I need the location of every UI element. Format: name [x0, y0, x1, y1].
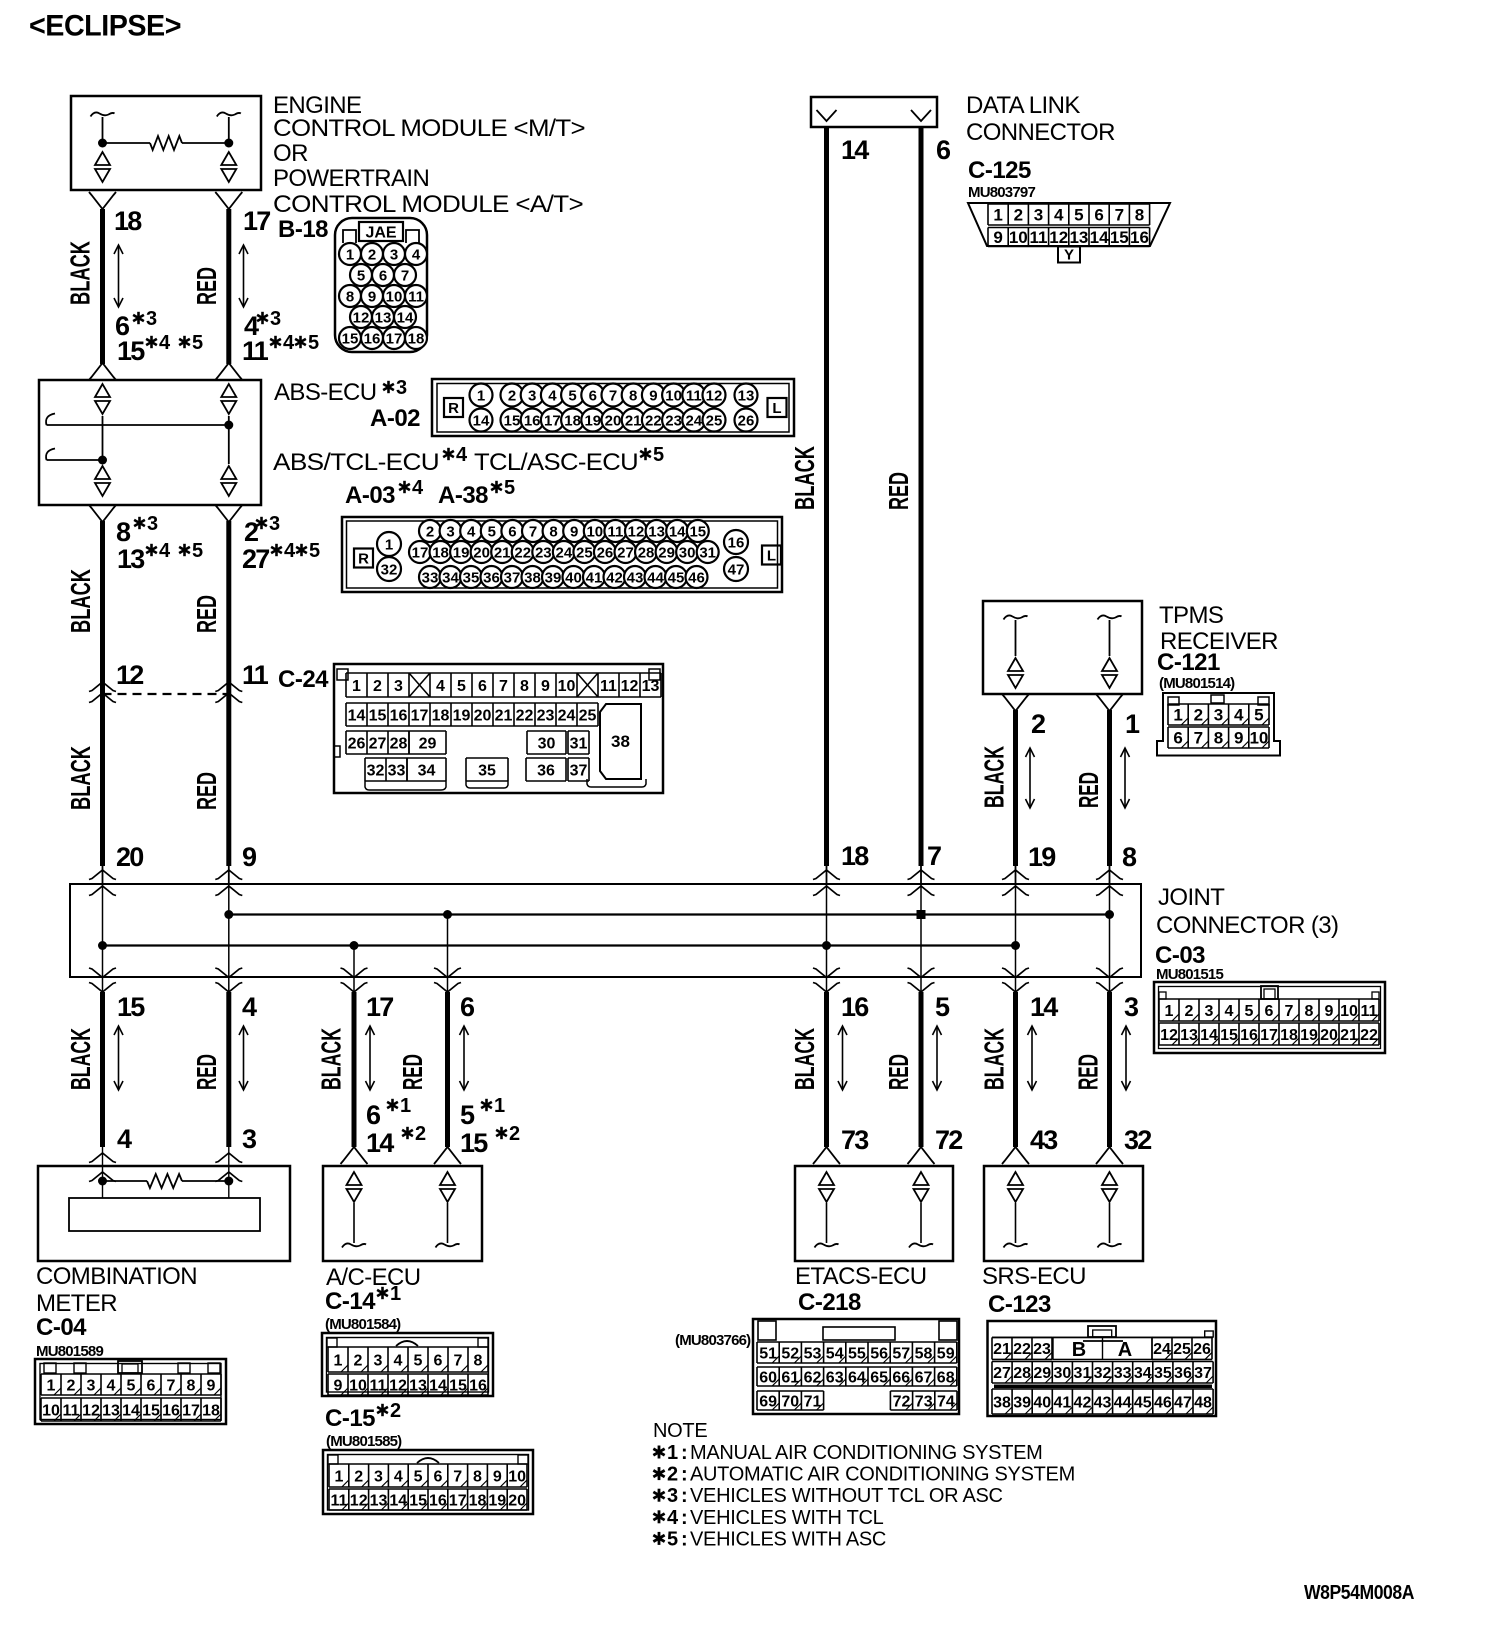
svg-text:C-125: C-125 [968, 157, 1031, 184]
svg-text:3: 3 [1205, 1003, 1214, 1020]
svg-text:28: 28 [638, 544, 655, 561]
svg-text:26: 26 [597, 544, 614, 561]
svg-text:12: 12 [350, 1492, 368, 1509]
svg-text:32: 32 [1124, 1125, 1151, 1155]
svg-text:22: 22 [645, 412, 662, 429]
arrow wire 1 right [239, 245, 248, 307]
svg-text:55: 55 [848, 1345, 866, 1362]
joint internal wire D [447, 915, 449, 993]
svg-text:2: 2 [1014, 206, 1023, 225]
svg-text:16: 16 [728, 534, 745, 551]
svg-text:14: 14 [389, 1492, 407, 1509]
svg-text:5: 5 [568, 387, 576, 404]
svg-text:TPMS: TPMS [1159, 602, 1223, 629]
svg-text:42: 42 [606, 569, 623, 586]
chevrons joint bottom [341, 968, 368, 978]
svg-text:11: 11 [1361, 1003, 1378, 1020]
wire TPMS CAN-H (RED) [1096, 694, 1123, 711]
svg-text:2: 2 [354, 1468, 363, 1485]
svg-text:(MU801514): (MU801514) [1159, 675, 1235, 692]
svg-text:5: 5 [414, 1468, 423, 1485]
svg-text:1: 1 [47, 1377, 56, 1394]
node meter left [98, 1177, 107, 1186]
svg-text:4: 4 [159, 540, 171, 562]
joint connector C-03 box [70, 884, 1141, 977]
svg-text:18: 18 [432, 544, 449, 561]
svg-text:16: 16 [1130, 228, 1149, 247]
svg-text:66: 66 [892, 1369, 910, 1386]
svg-text:6: 6 [433, 1468, 442, 1485]
svg-text:11: 11 [600, 678, 617, 695]
wire CAN-H ECM to ABS (RED) [215, 192, 242, 209]
svg-text:9: 9 [242, 842, 257, 872]
svg-text:4: 4 [117, 1124, 132, 1154]
svg-text:6: 6 [1173, 729, 1182, 748]
svg-text:C-15: C-15 [325, 1405, 375, 1432]
svg-text:1: 1 [334, 1352, 343, 1369]
svg-text:4: 4 [284, 540, 296, 562]
TPMS hook left [1004, 616, 1028, 620]
joint bus lower [103, 944, 1016, 946]
svg-text:C-121: C-121 [1157, 649, 1220, 676]
svg-text:48: 48 [1194, 1394, 1212, 1411]
svg-text:7: 7 [499, 678, 508, 695]
svg-text:22: 22 [1013, 1341, 1031, 1358]
svg-text:15: 15 [117, 992, 145, 1022]
svg-text:31: 31 [570, 735, 588, 752]
svg-text:R: R [358, 551, 369, 568]
node bus lower C [350, 941, 359, 950]
svg-text:32: 32 [367, 762, 385, 779]
svg-text:13: 13 [409, 1377, 427, 1394]
svg-text:1: 1 [494, 1095, 505, 1117]
meter internal wire left [102, 1147, 104, 1181]
svg-text:18: 18 [1280, 1027, 1298, 1044]
svg-text:21: 21 [495, 707, 513, 724]
svg-text:3: 3 [374, 1352, 383, 1369]
svg-text:20: 20 [1320, 1027, 1338, 1044]
svg-text:14: 14 [1090, 228, 1109, 247]
wire joint to unit col8 [1107, 992, 1112, 1147]
svg-text:6: 6 [379, 267, 387, 284]
svg-text:8: 8 [474, 1352, 483, 1369]
SRS internal wire left [1015, 1203, 1017, 1243]
svg-text:12: 12 [389, 1377, 407, 1394]
svg-text:12: 12 [82, 1402, 100, 1419]
svg-text:7: 7 [1285, 1003, 1294, 1020]
svg-text:(MU803766): (MU803766) [675, 1332, 751, 1349]
svg-text:44: 44 [647, 569, 664, 586]
chevrons joint top [1096, 870, 1123, 880]
svg-text:1: 1 [334, 1468, 343, 1485]
svg-text:28: 28 [390, 735, 408, 752]
TPMS terminal pair left [1008, 658, 1023, 688]
svg-text:4: 4 [394, 1352, 403, 1369]
svg-text:16: 16 [524, 412, 541, 429]
svg-text:37: 37 [1194, 1365, 1212, 1382]
svg-text:8: 8 [1214, 729, 1223, 748]
chevrons joint bottom [1096, 968, 1123, 978]
svg-text:11: 11 [242, 336, 269, 366]
svg-text:21: 21 [1340, 1027, 1358, 1044]
svg-text:2: 2 [426, 523, 434, 540]
svg-text:14: 14 [122, 1402, 140, 1419]
svg-text:8: 8 [1122, 842, 1137, 872]
wire ABS internal left lower [102, 460, 104, 464]
svg-text:2: 2 [509, 1123, 520, 1145]
svg-text:25: 25 [576, 544, 593, 561]
chevrons joint bottom [908, 968, 935, 978]
node bus upper D [443, 910, 452, 919]
svg-text:10: 10 [1249, 729, 1268, 748]
svg-text:51: 51 [759, 1345, 777, 1362]
ABS terminal pair top left [95, 384, 110, 414]
svg-text:8: 8 [629, 387, 637, 404]
svg-text:DATA LINK: DATA LINK [966, 92, 1080, 119]
svg-text:5: 5 [414, 1352, 423, 1369]
svg-text:MU801515: MU801515 [1156, 966, 1223, 983]
svg-text:C-14: C-14 [325, 1288, 376, 1315]
svg-text:10: 10 [1009, 228, 1028, 247]
arrow bottom wire [366, 1026, 375, 1090]
svg-text:RED: RED [883, 1054, 914, 1090]
svg-text:4: 4 [394, 1468, 403, 1485]
svg-text:32: 32 [1094, 1365, 1112, 1382]
svg-text:8: 8 [187, 1377, 196, 1394]
svg-text:14: 14 [348, 707, 366, 724]
svg-text:45: 45 [1134, 1394, 1152, 1411]
svg-text:27: 27 [242, 544, 269, 574]
node ECM right junction [224, 139, 233, 148]
wire joint to unit col7 [1013, 992, 1018, 1147]
svg-text:6: 6 [1094, 206, 1103, 225]
svg-text:2: 2 [508, 387, 516, 404]
ABS terminal pair bottom right [221, 466, 236, 496]
TPMS terminal pair right [1102, 658, 1117, 688]
svg-text:5: 5 [309, 540, 320, 562]
svg-text:21: 21 [494, 544, 511, 561]
node bus lower E [822, 941, 831, 950]
svg-text:3: 3 [269, 513, 280, 535]
svg-text:5: 5 [488, 523, 496, 540]
SRS terminal pair right [1102, 1172, 1117, 1202]
svg-text:4: 4 [667, 1507, 679, 1529]
svg-text:<ECLIPSE>: <ECLIPSE> [29, 10, 181, 43]
svg-text:RED: RED [191, 772, 222, 810]
AC terminal pair left [347, 1172, 362, 1202]
svg-text:7: 7 [1115, 206, 1124, 225]
svg-text:15: 15 [117, 336, 145, 366]
svg-text:37: 37 [570, 762, 588, 779]
meter internal wire right [228, 1147, 230, 1181]
svg-text:72: 72 [935, 1125, 962, 1155]
svg-text:8: 8 [1135, 206, 1144, 225]
svg-text:L: L [772, 400, 781, 417]
svg-text:17: 17 [386, 330, 403, 347]
svg-text:36: 36 [1174, 1365, 1192, 1382]
connector C-24 crossing right [215, 682, 242, 692]
svg-text:C-24: C-24 [278, 666, 329, 693]
connector C-14 face [322, 1333, 493, 1396]
svg-text:3: 3 [1214, 706, 1223, 725]
connector C-15 face [323, 1450, 533, 1514]
chevrons joint bottom [89, 968, 116, 978]
svg-text:RED: RED [191, 267, 222, 305]
svg-text:RED: RED [191, 595, 222, 633]
svg-text:16: 16 [469, 1377, 487, 1394]
connector C-03 face [1154, 982, 1385, 1053]
svg-text:A-38: A-38 [438, 482, 488, 509]
svg-text:26: 26 [738, 412, 755, 429]
svg-text:73: 73 [841, 1125, 869, 1155]
svg-text:18: 18 [432, 707, 450, 724]
arrow bottom wire [838, 1026, 847, 1090]
svg-text:POWERTRAIN: POWERTRAIN [273, 165, 429, 192]
note *2 [653, 1467, 664, 1480]
svg-text:JAE: JAE [365, 225, 396, 242]
svg-text:68: 68 [937, 1369, 955, 1386]
svg-text:19: 19 [1028, 842, 1056, 872]
svg-text:3: 3 [146, 308, 157, 330]
note *1 [653, 1446, 664, 1459]
svg-text:16: 16 [429, 1492, 447, 1509]
svg-text:9: 9 [1325, 1003, 1334, 1020]
svg-text:58: 58 [915, 1345, 933, 1362]
svg-text:9: 9 [207, 1377, 216, 1394]
svg-text:OR: OR [273, 140, 308, 167]
svg-text:7: 7 [167, 1377, 176, 1394]
node bus upper H [1105, 910, 1114, 919]
svg-text:3: 3 [374, 1468, 383, 1485]
svg-text:16: 16 [364, 330, 381, 347]
svg-text:13: 13 [648, 523, 665, 540]
svg-text:38: 38 [993, 1394, 1011, 1411]
ABS terminal pair top right [221, 384, 236, 414]
svg-text:NOTE: NOTE [653, 1420, 707, 1442]
svg-text:6: 6 [147, 1377, 156, 1394]
svg-text:35: 35 [463, 569, 480, 586]
svg-text:15: 15 [460, 1128, 488, 1158]
svg-text:9: 9 [649, 387, 657, 404]
svg-text:3: 3 [1124, 992, 1139, 1022]
svg-text:5: 5 [667, 1528, 678, 1550]
svg-text:1: 1 [1173, 706, 1182, 725]
svg-text:12: 12 [628, 523, 645, 540]
svg-text:30: 30 [1053, 1365, 1071, 1382]
svg-text:17: 17 [366, 992, 393, 1022]
connector B-18 face [335, 218, 427, 352]
svg-text:40: 40 [565, 569, 582, 586]
svg-text:8: 8 [1305, 1003, 1314, 1020]
svg-text:16: 16 [1240, 1027, 1258, 1044]
svg-text:BLACK: BLACK [979, 746, 1010, 808]
joint internal wire F [920, 884, 922, 992]
svg-text:TCL/ASC-ECU: TCL/ASC-ECU [474, 449, 638, 476]
svg-text:43: 43 [1030, 1125, 1058, 1155]
svg-text:15: 15 [369, 707, 387, 724]
svg-text:18: 18 [114, 206, 142, 236]
resistor R1 (CAN terminating) [103, 142, 151, 144]
svg-text:6: 6 [434, 1352, 443, 1369]
svg-text:A-03: A-03 [345, 482, 395, 509]
ECM terminal hook left [91, 113, 115, 117]
svg-text:12: 12 [621, 678, 639, 695]
SRS terminal pair left [1008, 1172, 1023, 1202]
svg-text:20: 20 [474, 707, 492, 724]
svg-text:5: 5 [1254, 706, 1263, 725]
svg-text:23: 23 [665, 412, 682, 429]
svg-text:17: 17 [411, 707, 429, 724]
svg-text:15: 15 [409, 1492, 427, 1509]
node ABS upper junction [224, 421, 233, 430]
svg-text:2: 2 [415, 1123, 426, 1145]
svg-text:3: 3 [147, 513, 158, 535]
svg-text:12: 12 [1160, 1027, 1178, 1044]
wire joint to unit col5 [824, 992, 829, 1147]
svg-text:4: 4 [107, 1377, 116, 1394]
svg-text:7: 7 [1194, 729, 1203, 748]
svg-text:ABS-ECU: ABS-ECU [274, 379, 377, 406]
svg-text:17: 17 [449, 1492, 467, 1509]
svg-text:24: 24 [1153, 1341, 1171, 1358]
svg-text:10: 10 [42, 1402, 60, 1419]
svg-text:CONNECTOR (3): CONNECTOR (3) [1156, 912, 1338, 939]
svg-text:5: 5 [935, 992, 950, 1022]
svg-text:30: 30 [679, 544, 696, 561]
svg-text:15: 15 [1110, 228, 1129, 247]
wire dashed C-24 link [103, 693, 229, 695]
ABS internal bus upper [46, 414, 55, 426]
svg-text:7: 7 [609, 387, 617, 404]
wire ABS internal right lower [228, 425, 230, 464]
svg-text:26: 26 [1193, 1341, 1211, 1358]
svg-text:RED: RED [397, 1054, 428, 1090]
svg-text:10: 10 [508, 1468, 526, 1485]
arrow bottom wire [460, 1026, 469, 1090]
svg-text:ETACS-ECU: ETACS-ECU [795, 1263, 927, 1290]
svg-text:14: 14 [473, 412, 490, 429]
svg-text:12: 12 [116, 660, 143, 690]
svg-text:10: 10 [1340, 1003, 1358, 1020]
svg-text:RED: RED [191, 1054, 222, 1090]
svg-text:17: 17 [1260, 1027, 1278, 1044]
svg-text:6: 6 [478, 678, 487, 695]
svg-text:4: 4 [548, 387, 557, 404]
chevrons joint bottom [1002, 968, 1029, 978]
node bus lower G [1011, 941, 1020, 950]
svg-text:BLACK: BLACK [65, 1028, 96, 1090]
svg-text:3: 3 [1034, 206, 1043, 225]
node bus upper B [224, 910, 233, 919]
svg-text:B-18: B-18 [278, 216, 328, 243]
svg-text:9: 9 [541, 678, 550, 695]
svg-text:1: 1 [667, 1442, 678, 1464]
joint internal wire B [228, 884, 230, 992]
svg-text:11: 11 [408, 288, 424, 305]
svg-text:5: 5 [308, 332, 319, 354]
svg-text:2: 2 [373, 678, 382, 695]
svg-text:29: 29 [1033, 1365, 1051, 1382]
svg-text:6: 6 [589, 387, 597, 404]
svg-text:1: 1 [1165, 1003, 1174, 1020]
svg-text:15: 15 [342, 330, 359, 347]
svg-text:64: 64 [848, 1369, 866, 1386]
svg-text:22: 22 [516, 707, 534, 724]
svg-text:29: 29 [419, 735, 437, 752]
svg-text:R: R [448, 400, 459, 417]
svg-text:CONNECTOR: CONNECTOR [966, 119, 1115, 146]
svg-text:10: 10 [586, 523, 603, 540]
svg-text:RED: RED [1073, 772, 1104, 808]
svg-text:C-218: C-218 [798, 1289, 861, 1316]
connector C-121 face [1157, 693, 1280, 756]
node bus upper F square [917, 910, 926, 919]
svg-text:11: 11 [370, 1377, 387, 1394]
svg-text:3: 3 [87, 1377, 96, 1394]
joint internal wire A [102, 884, 104, 992]
svg-text:59: 59 [937, 1345, 955, 1362]
svg-text:CONTROL MODULE <A/T>: CONTROL MODULE <A/T> [273, 191, 583, 218]
connector C-218 face [753, 1319, 959, 1414]
arrow bottom wire [1028, 1026, 1037, 1090]
wire ABS internal right [228, 416, 230, 425]
meter display rect [102, 1181, 104, 1198]
svg-text:1: 1 [346, 246, 354, 263]
svg-text:COMBINATION: COMBINATION [36, 1263, 197, 1290]
svg-text:3: 3 [528, 387, 536, 404]
svg-text:19: 19 [488, 1492, 506, 1509]
node bus lower A [98, 941, 107, 950]
svg-text:36: 36 [537, 762, 555, 779]
engine/powertrain control module box [71, 96, 261, 190]
svg-text:2: 2 [1194, 706, 1203, 725]
svg-text:18: 18 [469, 1492, 487, 1509]
svg-text:53: 53 [804, 1345, 822, 1362]
svg-text:3: 3 [446, 523, 454, 540]
svg-text:13: 13 [642, 678, 660, 695]
svg-text:52: 52 [781, 1345, 799, 1362]
svg-text:9: 9 [368, 288, 376, 305]
svg-text:22: 22 [1360, 1027, 1378, 1044]
svg-text:5: 5 [1245, 1003, 1254, 1020]
svg-text:4: 4 [456, 444, 468, 466]
svg-text:24: 24 [558, 707, 576, 724]
svg-text:36: 36 [483, 569, 500, 586]
svg-text:39: 39 [1013, 1394, 1031, 1411]
combination meter box [38, 1166, 290, 1261]
svg-text:61: 61 [781, 1369, 799, 1386]
node ABS lower junction [98, 456, 107, 465]
svg-text:BLACK: BLACK [789, 1028, 820, 1090]
svg-text:11: 11 [242, 660, 269, 690]
ECM terminal pair right [221, 152, 236, 182]
svg-text:42: 42 [1074, 1394, 1092, 1411]
svg-text:34: 34 [1134, 1365, 1152, 1382]
svg-text:19: 19 [453, 544, 470, 561]
svg-text:47: 47 [728, 561, 745, 578]
ABS terminal pair bottom left [95, 466, 110, 496]
svg-text:14: 14 [366, 1128, 394, 1158]
svg-text:9: 9 [993, 228, 1002, 247]
svg-text:18: 18 [564, 412, 581, 429]
connector C-24 crossing left [89, 682, 116, 692]
svg-text:2: 2 [368, 246, 376, 263]
svg-text:21: 21 [625, 412, 642, 429]
svg-text:74: 74 [937, 1393, 955, 1410]
svg-text:9: 9 [1234, 729, 1243, 748]
svg-text:2: 2 [1185, 1003, 1194, 1020]
svg-text:1: 1 [352, 678, 361, 695]
